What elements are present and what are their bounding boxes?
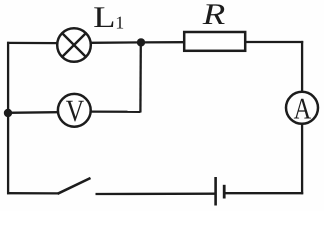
node: junction dot on left rail bbox=[4, 109, 12, 117]
switch S (open blade) bbox=[58, 178, 91, 194]
wire: voltmeter to vertical riser bbox=[91, 110, 140, 113]
ammeter A bbox=[286, 92, 318, 126]
resistor R (rectangle) bbox=[184, 32, 245, 51]
wire: bottom-left (corner to switch pivot) bbox=[7, 192, 58, 194]
svg-text:V: V bbox=[66, 93, 85, 128]
svg-text:A: A bbox=[294, 92, 312, 125]
battery cell: short plate bbox=[223, 185, 226, 199]
wire: vertical riser from voltmeter branch up to junction node bbox=[139, 42, 142, 112]
wire: voltmeter branch left (left rail to voltmeter) bbox=[7, 111, 58, 114]
voltmeter V bbox=[58, 93, 91, 128]
wire: resistor to top-right corner bbox=[246, 41, 304, 43]
wire: switch contact to battery bbox=[96, 193, 216, 196]
svg-text:L: L bbox=[93, 1, 115, 34]
lamp L1 (circle with X) bbox=[57, 28, 91, 62]
wire: right vertical rail bottom (ammeter to corner) bbox=[301, 124, 303, 195]
wire: junction node to resistor bbox=[141, 41, 184, 44]
wire: lamp to junction node bbox=[91, 41, 142, 44]
svg-text:1: 1 bbox=[115, 12, 124, 32]
wire: right vertical rail top (corner to ammeter) bbox=[301, 41, 303, 91]
wire: top-left horizontal (left corner to lamp) bbox=[7, 42, 58, 44]
battery cell: long plate bbox=[214, 177, 217, 206]
node: junction dot after lamp bbox=[137, 38, 145, 46]
wire: battery to bottom-right corner bbox=[224, 192, 303, 194]
svg-text:R: R bbox=[202, 0, 226, 31]
wire: left vertical rail bbox=[7, 42, 9, 194]
